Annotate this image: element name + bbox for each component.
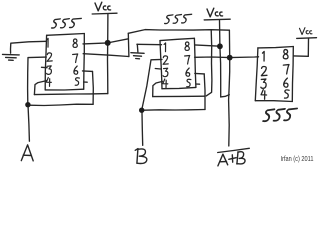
- svg-text:Irfan (c) 2011: Irfan (c) 2011: [281, 155, 314, 163]
